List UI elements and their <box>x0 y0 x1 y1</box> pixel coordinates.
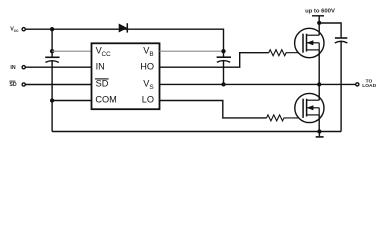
resistor R2 low-side gate <box>267 115 299 121</box>
svg-text:SD: SD <box>96 78 109 88</box>
wire VS output to load <box>160 83 356 85</box>
label pin VS <box>143 79 153 91</box>
node junction half-bridge output <box>317 82 321 86</box>
node TO LOAD terminal <box>356 83 359 86</box>
label pin SD <box>95 78 109 88</box>
capacitor C3 bus <box>335 38 348 43</box>
capacitor C1 Vcc bypass <box>45 57 59 62</box>
label SD (with overline) <box>9 81 16 88</box>
wire C1 bottom lead to bottom rail <box>51 61 53 132</box>
node Vcc input terminal <box>22 28 25 31</box>
label TO LOAD <box>362 79 376 89</box>
wire SD <box>25 84 91 86</box>
transistor Q1 high-side MOSFET <box>295 28 324 57</box>
svg-text:IN: IN <box>96 61 105 71</box>
wire LO to gate resistor <box>160 101 267 118</box>
svg-text:S: S <box>149 84 153 91</box>
wire COM <box>52 100 91 102</box>
wire Vcc pin (gray) <box>52 50 91 52</box>
wire Q1 drain to 600V node <box>318 23 320 35</box>
wire C1 top lead <box>51 29 53 56</box>
wire Vcc top rail <box>25 29 223 51</box>
svg-text:CC: CC <box>102 51 112 58</box>
wire bottom rail <box>52 131 341 133</box>
svg-text:HO: HO <box>140 61 154 71</box>
node SD input terminal <box>22 83 25 86</box>
node junction COM <box>50 98 54 102</box>
wire IN <box>25 66 91 68</box>
node junction Vcc pin <box>50 49 54 53</box>
svg-text:LOAD: LOAD <box>362 83 376 89</box>
svg-text:SD: SD <box>9 82 16 88</box>
wire VB pin (gray) <box>160 50 224 52</box>
node junction 600V rail <box>317 21 321 25</box>
svg-text:B: B <box>149 51 153 58</box>
svg-text:IN: IN <box>10 65 15 71</box>
wire 600V rail stub <box>318 16 320 23</box>
label Vcc <box>10 27 19 34</box>
ground <box>316 132 324 137</box>
diode D1 bootstrap <box>119 23 127 32</box>
svg-text:COM: COM <box>95 95 116 105</box>
wire Q2 source to ground node <box>318 115 320 132</box>
wire C2 top lead <box>223 51 225 56</box>
wire C3 bottom lead to bottom rail <box>340 41 342 131</box>
svg-text:up to 600V: up to 600V <box>305 8 335 14</box>
wire Q1 source to output node <box>318 50 320 85</box>
svg-text:LO: LO <box>142 95 154 105</box>
node junction ground <box>317 129 321 133</box>
op-amp U1 driver IC box <box>92 43 160 109</box>
svg-text:cc: cc <box>14 28 19 33</box>
node 600V rail bar <box>312 15 324 17</box>
node junction Vcc/C1 <box>50 27 54 31</box>
wire 600V node to C3 <box>319 23 341 37</box>
wire HO to gate resistor <box>160 53 269 67</box>
node IN input terminal <box>22 66 25 69</box>
wire Q2 drain to output node <box>318 84 320 100</box>
resistor R1 high-side gate <box>269 50 299 56</box>
node junction VB / D1 / C2 <box>221 49 225 53</box>
wire C2 bottom lead <box>223 61 225 85</box>
transistor Q2 low-side MOSFET <box>295 93 324 122</box>
node junction C2 / VS <box>221 82 225 86</box>
label pin VB <box>143 46 153 58</box>
capacitor C2 bootstrap <box>217 57 231 62</box>
label pin VCC <box>96 46 112 58</box>
